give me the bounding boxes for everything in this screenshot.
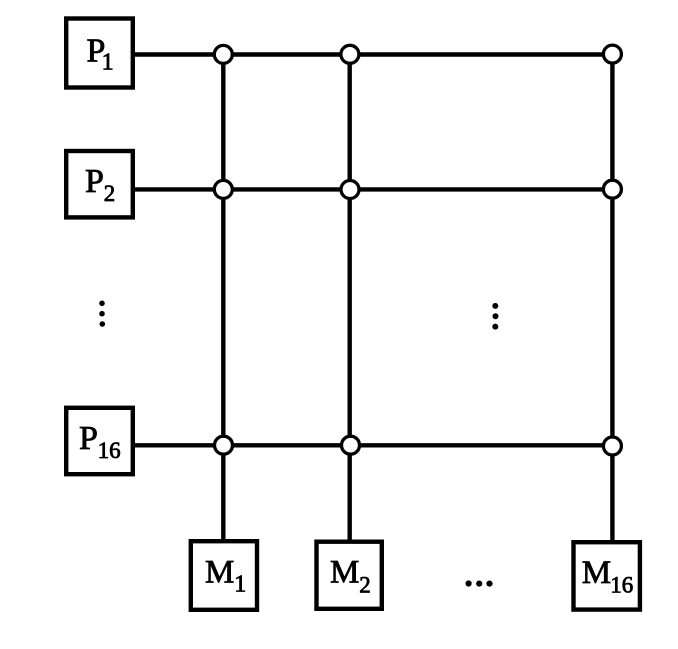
crosspoint switch S23 [603,180,621,198]
svg-text:P: P [79,420,98,457]
crosspoint switch S13 [603,45,621,63]
svg-text:2: 2 [104,181,116,206]
svg-text:16: 16 [610,572,633,597]
crosspoint switch S21 [214,180,232,198]
wire column 3 (M16 bus) [610,54,614,541]
wire row 1 (P1 bus) [134,52,612,56]
processor P16 [66,408,133,474]
vertical ellipsis between P2 and P16 [99,301,105,327]
memory M2 [317,542,382,609]
svg-text:16: 16 [98,438,121,463]
svg-text:1: 1 [234,572,246,598]
crosspoint switch S11 [214,45,232,63]
horizontal ellipsis between M2 and M16 [466,580,493,586]
memory M16 [574,542,640,609]
memory M1 [191,541,257,610]
processor P2 [66,151,133,217]
svg-text:P: P [85,163,104,200]
svg-text:M: M [330,555,359,591]
wire column 2 (M2 bus) [348,54,352,540]
svg-text:1: 1 [102,50,114,76]
svg-text:2: 2 [359,572,371,597]
wire row 3 (P16 bus) [134,443,612,447]
crosspoint switch S12 [341,45,359,63]
crosspoint switch S33 [603,437,621,455]
vertical ellipsis in grid between row 2 and row 3 [492,303,498,330]
svg-text:M: M [582,555,611,591]
svg-text:M: M [205,555,234,591]
processor P1 [66,19,133,88]
crosspoint switch S31 [215,436,233,454]
wire row 2 (P2 bus) [134,187,612,191]
crosspoint switch S32 [342,436,360,454]
crosspoint switch S22 [341,181,359,199]
wire column 1 (M1 bus) [221,55,225,541]
